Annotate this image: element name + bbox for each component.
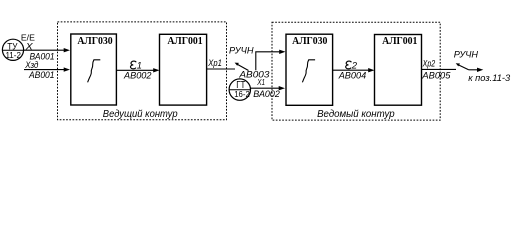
svg-text:АВ001: АВ001: [28, 70, 54, 80]
svg-text:Ведущий контур: Ведущий контур: [103, 109, 178, 120]
svg-text:Хр1: Хр1: [207, 58, 221, 68]
svg-text:Х1: Х1: [257, 77, 266, 87]
svg-text:16-2: 16-2: [234, 89, 250, 99]
svg-text:АЛГ001: АЛГ001: [167, 35, 202, 47]
transmitter circle TU 11-2: [2, 39, 23, 60]
svg-text:Хзд: Хзд: [24, 60, 38, 70]
ramp symbol in ALG030 #2: [302, 60, 315, 83]
svg-text:к поз.11-3: к поз.11-3: [468, 73, 511, 83]
dashed box 1 (leading loop): [58, 22, 227, 120]
svg-text:1: 1: [137, 61, 142, 71]
svg-text:РУЧН: РУЧН: [229, 45, 254, 56]
label eps2: [346, 61, 352, 69]
svg-text:АВ004: АВ004: [338, 70, 366, 80]
svg-text:Ведомый контур: Ведомый контур: [317, 109, 395, 120]
block ALG030 #1: [71, 34, 117, 105]
wire eps2 / AB004: [333, 68, 375, 72]
svg-text:АВ002: АВ002: [123, 70, 152, 80]
wire Xp2 / AB005: [422, 68, 457, 70]
manual wire with drop: [256, 50, 286, 71]
svg-text:ВА002: ВА002: [253, 89, 280, 99]
svg-text:АВ005: АВ005: [421, 70, 451, 80]
wire X / BA001: [24, 48, 71, 52]
switch blade 1 with tick: [235, 63, 249, 71]
dashed box 2 (follower loop): [272, 22, 440, 120]
wire Xp1: [207, 68, 235, 70]
svg-text:АВ003: АВ003: [238, 69, 270, 79]
svg-text:АЛГ030: АЛГ030: [77, 35, 112, 47]
output arrow to pos 11-3: [469, 68, 484, 72]
block ALG001 #2: [375, 35, 422, 106]
svg-text:АЛГ030: АЛГ030: [292, 35, 327, 47]
switch blade 2 with tick: [456, 63, 469, 70]
svg-text:АЛГ001: АЛГ001: [382, 35, 417, 47]
dynamic block circle GT 16-2: [229, 79, 250, 100]
svg-text:11-2: 11-2: [5, 50, 21, 60]
wire eps1 / AB002: [116, 68, 159, 72]
svg-text:2: 2: [351, 61, 358, 71]
block ALG030 #2: [286, 34, 333, 105]
label eps1: [130, 61, 136, 69]
wire Xzd / AB001: [24, 67, 70, 71]
wire X1 / BA002: [250, 86, 285, 90]
svg-text:Х: Х: [25, 41, 34, 51]
svg-text:РУЧН: РУЧН: [454, 50, 478, 61]
ramp symbol in ALG030 #1: [88, 60, 101, 83]
svg-text:Хр2: Хр2: [422, 58, 436, 68]
block ALG001 #1: [160, 34, 207, 105]
